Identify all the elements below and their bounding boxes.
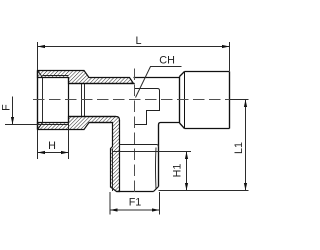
stepped internal profile right of branch (135, 89, 160, 125)
branch male thread minor line right (155, 148, 158, 190)
branch male thread minor line left (112, 149, 114, 192)
wire: collar line of branch (120, 145, 159, 148)
svg-text:H: H (48, 140, 56, 152)
cylinder bottom (185, 128, 230, 130)
cylinder chamfer edge vertical (184, 72, 186, 129)
branch bottom right chamfer (154, 187, 159, 192)
wire: hex/neck top silhouette (134, 77, 180, 79)
svg-text:F: F (1, 104, 13, 111)
cylinder left face (179, 77, 181, 124)
wire: thread major line bottom (43, 124, 69, 126)
dimension L1 (159, 100, 249, 191)
dimension H (38, 123, 69, 160)
cylinder top (185, 71, 230, 73)
right cylinder (nut) (180, 72, 230, 129)
wire: hex OD bottom to branch (89, 122, 113, 124)
dimension CH leader (136, 67, 182, 98)
wire: socket bottom vertical (68, 78, 70, 123)
wire: entrance chamfer top (38, 71, 43, 78)
svg-text:F1: F1 (129, 197, 142, 209)
wire: bore bottom line (69, 116, 117, 118)
wire: entrance chamfer bottom (38, 123, 43, 130)
wire: bore step verticals (81, 84, 83, 117)
left port outer face (37, 71, 39, 130)
dimension F (5, 97, 43, 125)
svg-text:L1: L1 (233, 142, 245, 154)
svg-text:H1: H1 (172, 164, 184, 178)
cylinder right face (229, 72, 231, 129)
wire: bore top line (69, 83, 135, 85)
centerline branch vertical (134, 69, 136, 197)
hatched section: top wall of left female port and hex body (38, 71, 134, 84)
svg-text:CH: CH (159, 55, 175, 67)
cylinder chamfer top (180, 72, 185, 77)
centerline horizontal (33, 99, 249, 101)
branch bottom edge (117, 191, 154, 193)
wire: thread major line top (43, 75, 69, 77)
hatched section: bottom wall of port, hex and branch left wall (38, 117, 120, 192)
svg-text:L: L (136, 35, 142, 47)
dimension F1 (110, 192, 160, 215)
cylinder chamfer bottom (180, 123, 185, 129)
wire: neck bottom silhouette (159, 123, 180, 187)
dimension H1 (113, 152, 192, 191)
dimension L (38, 42, 230, 71)
wire: female thread chamfer vertical (42, 78, 44, 123)
